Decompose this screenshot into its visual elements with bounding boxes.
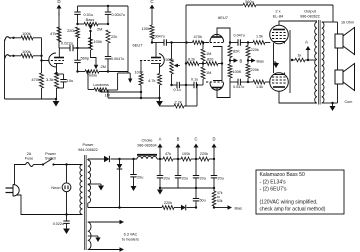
capacitor 0.0047u (treble lower): [105, 56, 111, 58]
potentiometer Bass 2M: [78, 23, 85, 25]
wire ground bus left: [4, 40, 6, 100]
svg-text:2.2k: 2.2k: [175, 100, 182, 105]
svg-text:EL-84: EL-84: [273, 14, 284, 19]
svg-text:63k: 63k: [217, 199, 223, 203]
svg-text:0.047u: 0.047u: [233, 85, 244, 89]
svg-text:20u: 20u: [137, 176, 143, 180]
resistor 22k: [106, 30, 110, 43]
capacitor 20u (reservoir): [132, 158, 134, 160]
svg-text:0.047u: 0.047u: [234, 34, 245, 38]
wire loudness wiper to grid leak: [101, 91, 141, 93]
heater lead bottom: [88, 249, 121, 251]
svg-text:50u: 50u: [200, 199, 206, 203]
svg-text:0.0047u: 0.0047u: [112, 13, 125, 17]
resistor 470k (grid leak): [40, 73, 44, 88]
svg-text:500k: 500k: [166, 57, 174, 62]
capacitor 0.0047u (V1b coupling): [156, 42, 164, 44]
resistor 1.5k (grid stopper top): [248, 42, 253, 44]
resistor R1 100k (input 1): [14, 37, 22, 39]
svg-text:0.0047u: 0.0047u: [152, 35, 165, 39]
svg-text:470k: 470k: [194, 34, 202, 39]
svg-text:1k: 1k: [298, 54, 302, 58]
svg-text:1.5k: 1.5k: [256, 35, 263, 39]
wire V2b plate: [217, 82, 230, 98]
svg-text:0.1u: 0.1u: [174, 88, 181, 92]
wire speaker series link: [337, 48, 339, 70]
resistor 8.2k (feedback): [185, 62, 187, 64]
diode D2 (bias): [181, 205, 186, 211]
svg-text:D: D: [57, 0, 60, 4]
svg-text:100K: 100K: [135, 70, 144, 75]
potentiometer Treble 2M: [78, 71, 86, 73]
resistor 47k-63k (bias adjust): [213, 206, 215, 208]
svg-text:Com: Com: [345, 100, 353, 104]
svg-text:820: 820: [207, 58, 213, 62]
wire AC hot: [15, 165, 26, 186]
svg-text:- (2) EL34's: - (2) EL34's: [260, 179, 287, 185]
resistor 3.3k (V1a cathode): [56, 64, 58, 74]
svg-text:4.7k: 4.7k: [148, 78, 155, 83]
output transformer secondary: [322, 22, 324, 103]
svg-text:984-008622: 984-008622: [78, 148, 98, 152]
resistor 820 (tail): [203, 63, 206, 65]
svg-text:Bias: Bias: [235, 207, 242, 211]
wire grid V1a: [40, 59, 42, 61]
svg-text:Choke: Choke: [142, 139, 153, 143]
svg-text:560p: 560p: [81, 55, 90, 60]
svg-text:470k: 470k: [31, 77, 40, 82]
capacitor 0.022u (coupling): [59, 47, 70, 49]
wire bias feed: [87, 203, 89, 208]
svg-text:6EU7: 6EU7: [133, 43, 144, 48]
resistor 100k (V1b grid leak): [140, 91, 142, 93]
wire AC neutral: [17, 195, 83, 215]
svg-text:check amp for actual method): check amp for actual method): [260, 207, 326, 213]
svg-text:10u: 10u: [67, 78, 74, 83]
svg-text:Fuse: Fuse: [25, 156, 33, 160]
svg-text:(120VAC wiring simplified,: (120VAC wiring simplified,: [260, 199, 318, 205]
resistor 100K (PI plate load bottom): [229, 59, 231, 61]
svg-text:A: A: [159, 137, 162, 142]
volume wiper arrow: [178, 65, 181, 67]
speaker SP2: [335, 70, 343, 84]
svg-text:D: D: [212, 137, 215, 142]
wire V1a plate: [58, 48, 60, 58]
svg-text:20u: 20u: [218, 177, 224, 181]
wire secondary top / 16 Ohm tap: [322, 21, 338, 23]
svg-text:100k: 100k: [182, 152, 190, 156]
svg-text:47k: 47k: [50, 31, 56, 36]
wire loudness return: [108, 97, 160, 99]
wire V1b plate junction: [151, 41, 153, 43]
AC plug: [13, 185, 19, 197]
svg-text:1M: 1M: [206, 70, 211, 75]
capacitor 5u (bias filter): [195, 206, 197, 208]
triode V1a (6EU7 a): [49, 53, 56, 67]
capacitor 10u (cathode bypass): [57, 73, 64, 75]
svg-text:C: C: [194, 137, 197, 142]
svg-text:220k: 220k: [67, 28, 75, 33]
svg-text:6.3 VAC: 6.3 VAC: [124, 233, 138, 237]
power transformer primary: [80, 165, 83, 215]
capacitor 0.022u (line): [65, 213, 67, 215]
rectifier diode D1: [87, 159, 89, 160]
svg-text:8.2k: 8.2k: [188, 58, 195, 62]
svg-text:3.3k: 3.3k: [46, 77, 54, 82]
HV centre tap to ground: [88, 183, 101, 185]
svg-text:Power: Power: [82, 142, 94, 147]
svg-text:1M: 1M: [206, 51, 211, 56]
capacitor 0.01u (bass): [77, 6, 79, 12]
triode V2b (PI bottom): [202, 82, 204, 85]
negative feedback wire + 560p: [185, 5, 187, 106]
potentiometer Loudness 1M: [87, 72, 89, 90]
node B (PI supply): [230, 60, 235, 62]
svg-text:220k: 220k: [200, 152, 208, 156]
svg-text:82K: 82K: [233, 50, 240, 54]
diode D2 (bias tap): [118, 158, 120, 160]
resistor 4.7k (V1b cathode): [159, 64, 161, 74]
svg-text:- (2) 6EU7's: - (2) 6EU7's: [260, 187, 287, 193]
wire PI cathode bracket: [213, 47, 222, 81]
svg-text:0.0047u: 0.0047u: [111, 57, 124, 61]
svg-text:220k: 220k: [251, 48, 259, 52]
power transformer HV secondary: [88, 160, 91, 203]
wire secondary bottom / common: [337, 84, 339, 103]
resistor 100k (bass wiper): [90, 31, 92, 38]
capacitor 0.047u (top coupling): [230, 42, 238, 44]
resistor 1k (screen feed): [292, 59, 295, 61]
capacitor 20u (node A): [159, 159, 161, 176]
svg-text:1.5k: 1.5k: [256, 85, 263, 89]
node B arrow (supply): [177, 158, 179, 160]
resistor 100k (V1b plate load): [150, 25, 154, 39]
wire cap return leg: [196, 85, 198, 106]
resistor 1M (upper divider): [202, 41, 204, 43]
ground (filter rail): [159, 187, 161, 189]
svg-text:Bass: Bass: [86, 17, 95, 22]
resistor 1.5k (grid stopper bottom): [248, 81, 253, 83]
wire V2a plate: [217, 28, 230, 43]
ground (EL84 cathodes): [275, 62, 277, 63]
heater centre tap ground: [88, 235, 98, 237]
svg-text:6EU7: 6EU7: [218, 15, 229, 20]
triode V2a (PI top): [208, 42, 210, 44]
heater lead top: [88, 221, 121, 223]
svg-text:100k: 100k: [94, 39, 102, 44]
svg-text:Bias: Bias: [257, 60, 264, 64]
resistor 47k (supply dropper): [163, 157, 173, 161]
wire tone stack right leg with arrow: [127, 6, 129, 73]
svg-text:22k: 22k: [111, 34, 117, 39]
resistor 560 (feedback): [243, 3, 256, 7]
svg-text:Loudness: Loudness: [93, 83, 109, 87]
ground (V1b cathode): [156, 101, 163, 107]
svg-text:B: B: [240, 59, 243, 64]
node A arrow (supply): [159, 158, 161, 160]
node D (top): [58, 12, 60, 48]
resistor 47k (V1a plate load): [57, 27, 61, 42]
input jack J2: [5, 55, 11, 59]
wire EL84 bottom plate: [279, 92, 317, 104]
node A (screens / OT centre tap): [307, 59, 309, 61]
svg-text:20u: 20u: [164, 177, 170, 181]
wire screen rail: [289, 30, 291, 93]
svg-text:47k: 47k: [165, 152, 171, 156]
resistor 82k (PI plate load top): [229, 41, 231, 43]
ground (speaker common): [331, 102, 333, 104]
ground (reservoir cap): [131, 186, 137, 191]
capacitor 20u (node D): [213, 159, 215, 176]
node Bias output: [214, 207, 229, 209]
power transformer heater secondary: [88, 222, 91, 250]
node C (top): [151, 7, 153, 16]
resistor 220k (grid bottom): [247, 59, 249, 61]
info box: [256, 170, 344, 214]
resistor R2 100k (input 2): [14, 55, 22, 57]
svg-text:220k: 220k: [251, 68, 259, 72]
svg-text:Kalamazoo Bass 50: Kalamazoo Bass 50: [260, 172, 305, 178]
svg-text:2M: 2M: [97, 27, 102, 32]
svg-text:0.022u: 0.022u: [61, 41, 73, 46]
svg-text:B: B: [177, 137, 180, 142]
filter ground rail: [160, 187, 214, 189]
ground (line cap): [66, 223, 68, 228]
svg-text:2M: 2M: [101, 64, 106, 69]
capacitor 0.1u (b): [193, 82, 195, 88]
output transformer core: [318, 20, 320, 105]
input jack J1: [5, 37, 11, 41]
svg-text:560p: 560p: [245, 0, 253, 4]
svg-text:986-083622: 986-083622: [300, 15, 320, 19]
resistor 1M (lower divider): [202, 62, 204, 64]
wire 0.1u row: [170, 84, 172, 86]
ground (V1a cathode): [55, 98, 57, 100]
capacitor 0.1u (a): [176, 82, 178, 88]
resistor 470k (PI input): [172, 42, 187, 44]
svg-text:16 Ohm: 16 Ohm: [341, 21, 354, 25]
triode V1b (6EU7 b): [159, 54, 164, 68]
pentode EL-84 (bottom): [270, 73, 289, 92]
speaker SP1: [335, 34, 343, 48]
capacitor 0.0047u (treble upper): [107, 5, 109, 7]
pentode EL-84 (top): [270, 25, 289, 44]
svg-text:1M: 1M: [105, 92, 110, 97]
wire EL84 top plate: [279, 21, 317, 26]
svg-text:Output: Output: [304, 9, 317, 14]
svg-text:100K: 100K: [233, 70, 242, 74]
svg-text:100k: 100k: [22, 49, 31, 54]
capacitor 0.047u (bottom coupling): [230, 81, 238, 83]
svg-text:0.022u: 0.022u: [53, 222, 64, 226]
wire EL84 cathodes to ground: [274, 43, 277, 62]
wire tone stack top rail: [78, 5, 129, 7]
potentiometer Volume 500k: [171, 43, 173, 60]
resistor 220k (grid top): [247, 41, 249, 43]
svg-text:20u: 20u: [182, 177, 188, 181]
svg-text:to heaters: to heaters: [122, 238, 139, 242]
node D arrow (supply): [213, 158, 215, 160]
node Bias (PI grids): [248, 60, 253, 62]
svg-text:220k: 220k: [164, 201, 172, 205]
svg-text:100k: 100k: [22, 31, 31, 36]
svg-text:Neon: Neon: [51, 186, 60, 190]
svg-text:0.1u: 0.1u: [191, 78, 198, 82]
resistor 2.2k: [160, 105, 175, 107]
resistor 220k (bias feed): [162, 206, 174, 210]
svg-text:100k: 100k: [142, 26, 150, 31]
resistor 100k (supply dropper): [181, 157, 191, 161]
power transformer core: [83, 155, 85, 250]
wire input mix junction: [33, 37, 42, 39]
resistor 220k (slope): [76, 27, 80, 38]
node C arrow (supply): [195, 158, 197, 160]
output transformer primary: [315, 22, 317, 103]
svg-text:C: C: [150, 0, 153, 4]
capacitor 560p: [74, 59, 80, 61]
svg-text:A: A: [305, 40, 308, 45]
svg-text:986-083634: 986-083634: [137, 144, 156, 148]
capacitor 20u (node B): [177, 159, 179, 176]
capacitor 20u (node C): [195, 159, 197, 176]
resistor 220k (supply dropper): [199, 157, 209, 161]
svg-text:20u: 20u: [200, 177, 206, 181]
